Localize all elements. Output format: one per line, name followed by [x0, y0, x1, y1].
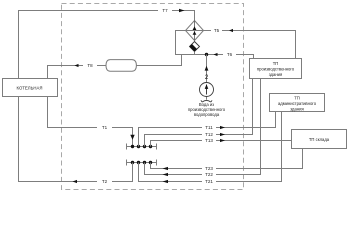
node R4 [149, 161, 152, 164]
boiler house box [3, 79, 58, 97]
elevator horizontal axis [186, 30, 204, 32]
arrow on T7 [179, 9, 185, 13]
svg-text:Т7: Т7 [162, 8, 168, 13]
wire T12 to TP1 [145, 135, 203, 147]
svg-text:Т13: Т13 [205, 138, 213, 143]
wire T23 from TP3 [151, 163, 203, 169]
svg-text:ТП: ТП [273, 61, 279, 66]
svg-text:административного: административного [278, 101, 317, 106]
wire T13 to TP3 [151, 141, 203, 147]
node R2 [137, 161, 140, 164]
wire T21 from TP2 [139, 163, 203, 182]
wire T2 to boiler [112, 163, 133, 182]
svg-text:Т22: Т22 [205, 172, 213, 177]
TP1 production building box [250, 59, 302, 79]
wire T5 from elevator to TP1 [204, 30, 212, 32]
wire T7 riser from boiler [19, 11, 159, 79]
wire T11 to TP2 [139, 128, 203, 147]
svg-text:Т12: Т12 [205, 132, 213, 137]
wire T7 horizontal to elevator [172, 11, 195, 21]
arrow on T22 [163, 173, 169, 176]
arrow on T8 [75, 64, 79, 67]
arrow down on T1 [130, 135, 134, 140]
node S4 [149, 145, 152, 148]
node S3 [143, 145, 146, 148]
arrow up on branch [205, 66, 209, 71]
svg-text:Т5: Т5 [214, 28, 220, 33]
return manifold [127, 162, 157, 164]
node R1 [131, 161, 134, 164]
valve stub [194, 52, 196, 55]
arrow on T11 [220, 126, 225, 129]
node S1 [131, 145, 134, 148]
svg-text:производственного: производственного [257, 66, 295, 71]
svg-text:2: 2 [205, 74, 209, 81]
wire T22 from TP1 [145, 163, 203, 175]
svg-text:Т11: Т11 [205, 125, 213, 130]
elevator axis line [194, 21, 196, 41]
pump P1 circle [200, 83, 214, 97]
wire T8 drop to boiler [97, 55, 182, 66]
valve V1 half-filled [190, 42, 200, 52]
TP2 administrative building box [270, 94, 325, 112]
svg-text:водопровода: водопровода [194, 112, 220, 117]
node pump branch junction [205, 53, 208, 56]
svg-text:ТП: ТП [294, 96, 300, 101]
arrow on T21 [163, 180, 169, 183]
svg-text:КОТЕЛЬНАЯ: КОТЕЛЬНАЯ [17, 85, 43, 90]
supply manifold [127, 146, 157, 148]
water inlet arc [201, 100, 212, 102]
svg-text:Т1: Т1 [102, 125, 108, 130]
node R3 [143, 161, 146, 164]
svg-text:ТП склада: ТП склада [309, 137, 330, 142]
elevator diamond U1 [186, 21, 204, 41]
svg-text:Т2: Т2 [102, 179, 108, 184]
arrow on T2 [73, 180, 78, 183]
svg-text:здания: здания [269, 72, 283, 77]
node S2 [137, 145, 140, 148]
elevator arrow upper [193, 26, 197, 30]
svg-text:Т6: Т6 [227, 52, 233, 57]
arrow on T6 [214, 53, 218, 56]
wire pump branch vertical [206, 55, 208, 100]
pump arrow [206, 85, 208, 95]
svg-text:Т8: Т8 [87, 63, 93, 68]
TP3 warehouse box [292, 130, 347, 149]
svg-text:здания: здания [290, 106, 304, 111]
arrow on T13 [220, 139, 225, 142]
arrow on T5 [229, 29, 233, 32]
wire T1 from boiler to manifold [48, 97, 98, 128]
mud trap capsule [106, 60, 136, 72]
elevator arrow lower [193, 31, 197, 35]
arrow on T23 [163, 167, 169, 170]
svg-text:Т21: Т21 [205, 179, 213, 184]
arrow on T12 [220, 133, 225, 136]
boundary dashed fence [62, 4, 244, 190]
wire T6 from TP1 to boiler line [236, 55, 254, 59]
svg-text:Т23: Т23 [205, 166, 213, 171]
